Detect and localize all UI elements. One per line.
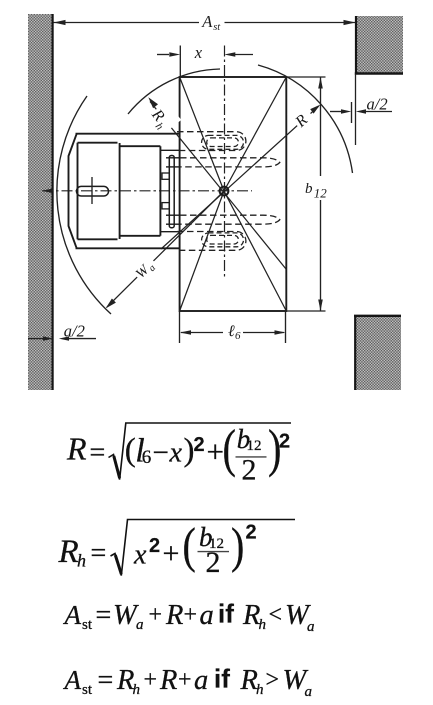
dimension a/2 bottom left: [28, 336, 96, 340]
svg-text:A: A: [201, 12, 213, 31]
svg-text:A: A: [63, 665, 82, 695]
horizontal centerline: [42, 190, 252, 192]
label b12: [305, 181, 327, 201]
svg-text:x: x: [169, 438, 183, 469]
svg-text:ℓ: ℓ: [228, 323, 235, 340]
arc R: [258, 65, 353, 173]
svg-text:a: a: [136, 617, 144, 633]
extension line plate left edge up: [179, 46, 181, 78]
arc R_h: [128, 69, 220, 114]
dimension a/2 top right: [330, 102, 392, 123]
shaft tick: [91, 177, 93, 204]
svg-text:+: +: [184, 602, 198, 628]
svg-text:=: =: [91, 538, 107, 569]
svg-text:a: a: [307, 619, 315, 635]
svg-text:+: +: [144, 667, 158, 693]
label l6: [228, 323, 241, 342]
svg-text:if: if: [218, 599, 234, 629]
svg-text:2: 2: [149, 535, 160, 557]
flange bolt bottom: [162, 203, 169, 209]
svg-text:): ): [231, 518, 244, 573]
bottom-right wall block hatched: [354, 315, 401, 390]
label R: [287, 103, 316, 132]
svg-text:12: 12: [314, 186, 328, 201]
svg-text:h: h: [256, 682, 264, 698]
motor neck lines: [160, 150, 180, 231]
label A_st: [201, 12, 221, 33]
svg-text:2: 2: [242, 454, 257, 487]
svg-text:2: 2: [246, 522, 257, 544]
motor outline: [69, 134, 180, 249]
plate edge extensions for b12: [286, 76, 325, 78]
svg-text:6: 6: [235, 330, 241, 342]
extension lines for l6: [179, 311, 181, 343]
formula 4: Ast = Rh + R + a if Rh > Wa: [63, 664, 313, 701]
hidden small stadium bottom: [202, 233, 244, 247]
hidden medium stadium top: [177, 132, 246, 151]
svg-text:12: 12: [247, 438, 262, 454]
svg-text:a/2: a/2: [367, 95, 388, 114]
shaft stadium: [77, 186, 109, 196]
hidden tine bottom: [180, 215, 280, 224]
svg-text:+: +: [163, 537, 180, 570]
arc W_a: [57, 96, 111, 314]
svg-text:R: R: [66, 431, 87, 467]
dimension A_st: [54, 20, 356, 25]
svg-text:h: h: [77, 551, 86, 571]
dimension b12: [318, 77, 323, 311]
radius line R_h with arrowhead: [148, 97, 286, 269]
svg-text:R: R: [165, 600, 183, 631]
right wall edge line below block: [355, 74, 357, 145]
formula 2: Rh = sqrt(x^2+(b12/2)^2): [58, 518, 296, 579]
svg-text:2: 2: [279, 431, 290, 453]
dimension l6: [180, 330, 286, 335]
svg-text:R: R: [58, 534, 79, 570]
svg-text:R: R: [159, 665, 177, 696]
svg-text:+: +: [207, 434, 224, 469]
hidden medium stadium bottom: [177, 232, 246, 251]
svg-text:2: 2: [206, 546, 221, 579]
vertical centerline through pivot: [224, 46, 226, 278]
svg-text:st: st: [82, 682, 93, 698]
formula 3: Ast = Wa + R + a if Rh < Wa: [63, 599, 315, 636]
svg-text:=: =: [90, 438, 106, 469]
centerline start arrowhead: [42, 189, 52, 193]
svg-text:h: h: [133, 682, 141, 698]
svg-text:st: st: [82, 617, 93, 633]
svg-text:(: (: [183, 518, 196, 573]
radius line R with arrowhead: [161, 105, 320, 249]
svg-text:(: (: [223, 420, 236, 479]
svg-text:a: a: [200, 600, 214, 631]
top-right wall block hatched: [355, 16, 403, 74]
svg-text:st: st: [213, 22, 221, 33]
hidden small stadium top: [202, 135, 244, 149]
swing plate rectangle: [180, 77, 287, 311]
svg-text:h: h: [259, 617, 267, 633]
svg-text:+: +: [178, 667, 192, 693]
svg-text:A: A: [63, 600, 82, 630]
svg-text:(: (: [125, 433, 136, 469]
corner diagonal lines from pivot: [180, 77, 287, 311]
svg-text:6: 6: [142, 447, 152, 468]
svg-text:=: =: [98, 665, 114, 696]
svg-text:x: x: [194, 43, 203, 62]
svg-text:if: if: [214, 664, 230, 694]
svg-text:a: a: [305, 684, 313, 700]
svg-text:>: >: [266, 667, 280, 693]
pivot point: [220, 187, 229, 196]
svg-text:=: =: [96, 600, 112, 631]
radius line W_a with arrowhead: [106, 191, 225, 309]
label W_a: [130, 254, 160, 284]
svg-text:<: <: [269, 602, 283, 628]
flange bolt top: [162, 173, 169, 179]
svg-text:a/2: a/2: [64, 322, 85, 341]
svg-text:2: 2: [194, 434, 205, 456]
label R_h: [145, 101, 181, 137]
svg-text:x: x: [133, 540, 147, 571]
dimension x: [157, 52, 253, 57]
svg-text:+: +: [149, 602, 163, 628]
svg-text:−: −: [153, 437, 169, 469]
svg-text:a: a: [194, 665, 208, 696]
svg-text:b: b: [305, 181, 313, 197]
left wall hatched: [28, 14, 53, 390]
formula 1: R = sqrt((l6-x)^2+(b12/2)^2): [66, 420, 291, 487]
motor flange: [169, 156, 174, 228]
hidden tine top: [180, 158, 280, 167]
